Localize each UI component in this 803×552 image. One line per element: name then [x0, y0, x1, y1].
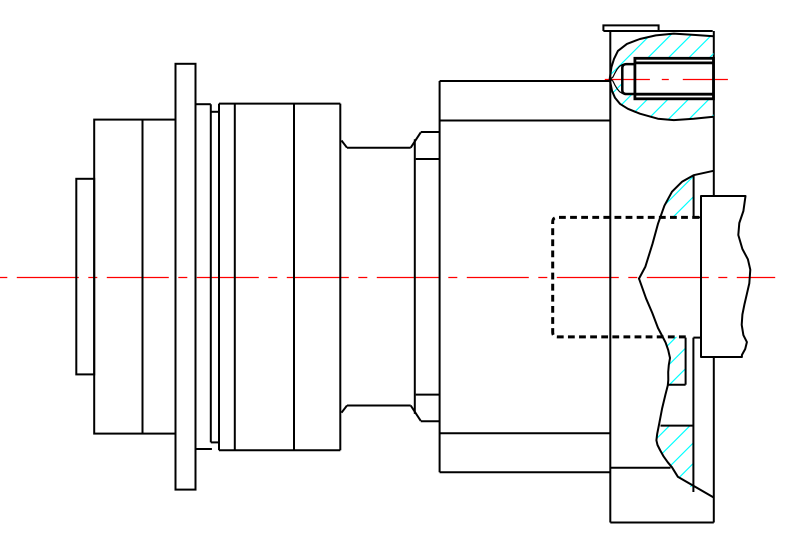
neck top surface	[347, 147, 411, 149]
neck chamfer bottom-left	[342, 406, 348, 413]
collar left face	[414, 139, 416, 414]
body top edge	[440, 80, 611, 82]
groove right face	[218, 104, 220, 451]
neck cone top-right	[411, 132, 421, 147]
collar top edge	[421, 131, 440, 133]
hidden bore (dashed)	[553, 217, 699, 337]
cylinder right face	[339, 104, 341, 451]
cylinder face line 1	[234, 104, 236, 451]
collar step top	[416, 158, 440, 160]
bolt shank bottom line	[635, 93, 714, 96]
pocket inner outline	[611, 64, 623, 94]
inner wall upper	[693, 175, 695, 217]
ring segment top edge	[196, 103, 211, 105]
groove left face	[210, 104, 212, 442]
inner wall lower	[692, 338, 694, 492]
housing bottom edge	[610, 522, 714, 524]
bolt centerline	[605, 79, 730, 81]
body left edge	[439, 81, 441, 472]
housing right edge wall	[713, 31, 715, 523]
groove ledge bottom	[668, 384, 686, 386]
groove top	[211, 111, 219, 113]
body bottom edge	[440, 471, 611, 473]
neck bottom surface	[347, 405, 411, 407]
collar bottom edge	[421, 420, 440, 422]
retention knob outline	[701, 196, 750, 357]
groove bottom	[211, 441, 219, 443]
pilot stub shaft	[76, 179, 94, 375]
cylinder face line 2	[293, 104, 295, 451]
wedge lower profile	[639, 279, 714, 498]
hub block inner edge	[142, 120, 144, 434]
neck cone bottom-right	[411, 406, 421, 421]
bottom pocket ledge	[661, 425, 694, 427]
knob seat step top	[694, 216, 701, 218]
pocket outer outline	[610, 34, 714, 121]
clamp bolt head	[635, 58, 714, 99]
top tab	[603, 25, 658, 31]
wedge upper profile	[639, 171, 714, 279]
groove ledge right face	[685, 338, 687, 385]
body bottom flange line	[440, 432, 611, 434]
collar step bottom	[416, 394, 440, 396]
cylinder bottom edge	[219, 449, 340, 451]
bolt tip	[622, 64, 635, 94]
bolt tip fill	[622, 64, 635, 94]
housing left wall	[609, 31, 611, 523]
left hub block	[94, 120, 175, 434]
housing bottom step	[610, 467, 670, 469]
main centerline	[0, 277, 775, 279]
retention knob fill	[701, 196, 750, 357]
ring segment bottom edge	[196, 448, 212, 450]
body top flange line	[440, 120, 611, 122]
knob seat step bottom	[693, 337, 701, 339]
cylinder top edge	[219, 103, 340, 105]
bolt head fill	[635, 58, 714, 99]
bolt shank top line	[635, 62, 714, 65]
housing top edge	[603, 30, 712, 32]
flange disc	[176, 64, 196, 490]
neck chamfer top-left	[342, 141, 348, 148]
